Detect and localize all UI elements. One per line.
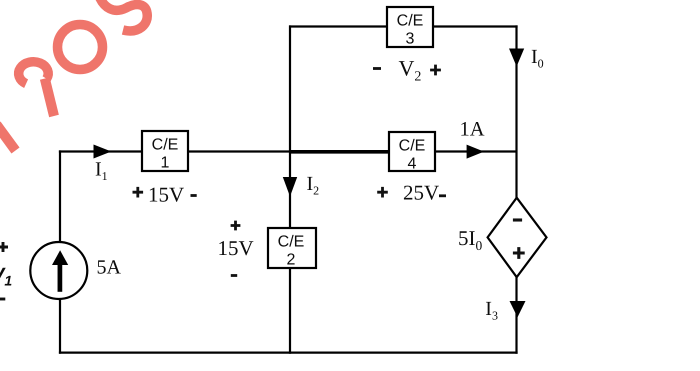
element C/E 1 bbox=[142, 131, 188, 172]
svg-text:C/E: C/E bbox=[278, 233, 305, 250]
element C/E 3 bbox=[387, 7, 433, 48]
wire right vertical lower bbox=[515, 276, 517, 354]
wire middle vertical lower bbox=[289, 267, 291, 354]
svg-text:15V: 15V bbox=[148, 183, 184, 207]
arrow 1A bbox=[467, 145, 484, 159]
label minus 15V (under C/E 1) bbox=[191, 194, 197, 197]
svg-text:C/E: C/E bbox=[397, 12, 424, 29]
arrow I2 bbox=[283, 177, 297, 197]
dependent source plus sign bbox=[513, 247, 525, 259]
dependent source 5I0 diamond bbox=[488, 198, 547, 277]
wire left vertical lower bbox=[59, 298, 61, 354]
label minus V1 (left edge) bbox=[0, 298, 5, 301]
label minus V2 bbox=[373, 67, 381, 70]
svg-text:25V: 25V bbox=[403, 181, 439, 205]
arrow I1 bbox=[94, 145, 112, 159]
svg-text:C/E: C/E bbox=[152, 136, 179, 153]
label plus V2 bbox=[430, 65, 441, 76]
wire middle horizontal right (through 1A arrow) bbox=[434, 150, 517, 152]
label plus (left of C/E 2) bbox=[231, 221, 241, 231]
wire right vertical upper bbox=[515, 25, 517, 199]
svg-text:1A: 1A bbox=[460, 119, 485, 141]
arrow I0 bbox=[509, 49, 524, 67]
svg-text:C/E: C/E bbox=[399, 137, 426, 154]
dependent source minus sign bbox=[513, 218, 522, 221]
svg-text:4: 4 bbox=[408, 156, 417, 173]
svg-text:3: 3 bbox=[406, 31, 415, 48]
element C/E 4 bbox=[389, 132, 435, 173]
wire middle horizontal thick segment bbox=[290, 150, 390, 154]
wire top right segment bbox=[432, 25, 518, 27]
wire bottom bbox=[59, 351, 518, 353]
label plus 15V (under C/E 1) bbox=[133, 187, 144, 198]
svg-text:5A: 5A bbox=[97, 257, 122, 279]
wire middle horizontal left bbox=[59, 150, 143, 152]
wire middle horizontal second (through I1 arrow) bbox=[187, 150, 291, 152]
svg-text:1: 1 bbox=[161, 155, 170, 172]
wire middle vertical upper bbox=[289, 25, 291, 229]
arrow I3 bbox=[510, 301, 526, 317]
label plus 25V (under C/E 4) bbox=[377, 187, 388, 198]
current source 5A circle bbox=[30, 242, 87, 299]
watermark bbox=[0, 0, 147, 151]
label plus V1 (left edge) bbox=[0, 242, 8, 252]
element C/E 2 bbox=[268, 228, 316, 269]
current source arrow bbox=[52, 250, 68, 291]
label minus 25V (under C/E 4) bbox=[439, 194, 446, 197]
label minus (left of C/E 2) bbox=[231, 274, 237, 277]
wire left vertical upper bbox=[59, 150, 61, 243]
svg-text:15V: 15V bbox=[218, 236, 254, 260]
wire top left segment bbox=[289, 25, 388, 27]
svg-text:2: 2 bbox=[287, 252, 296, 269]
